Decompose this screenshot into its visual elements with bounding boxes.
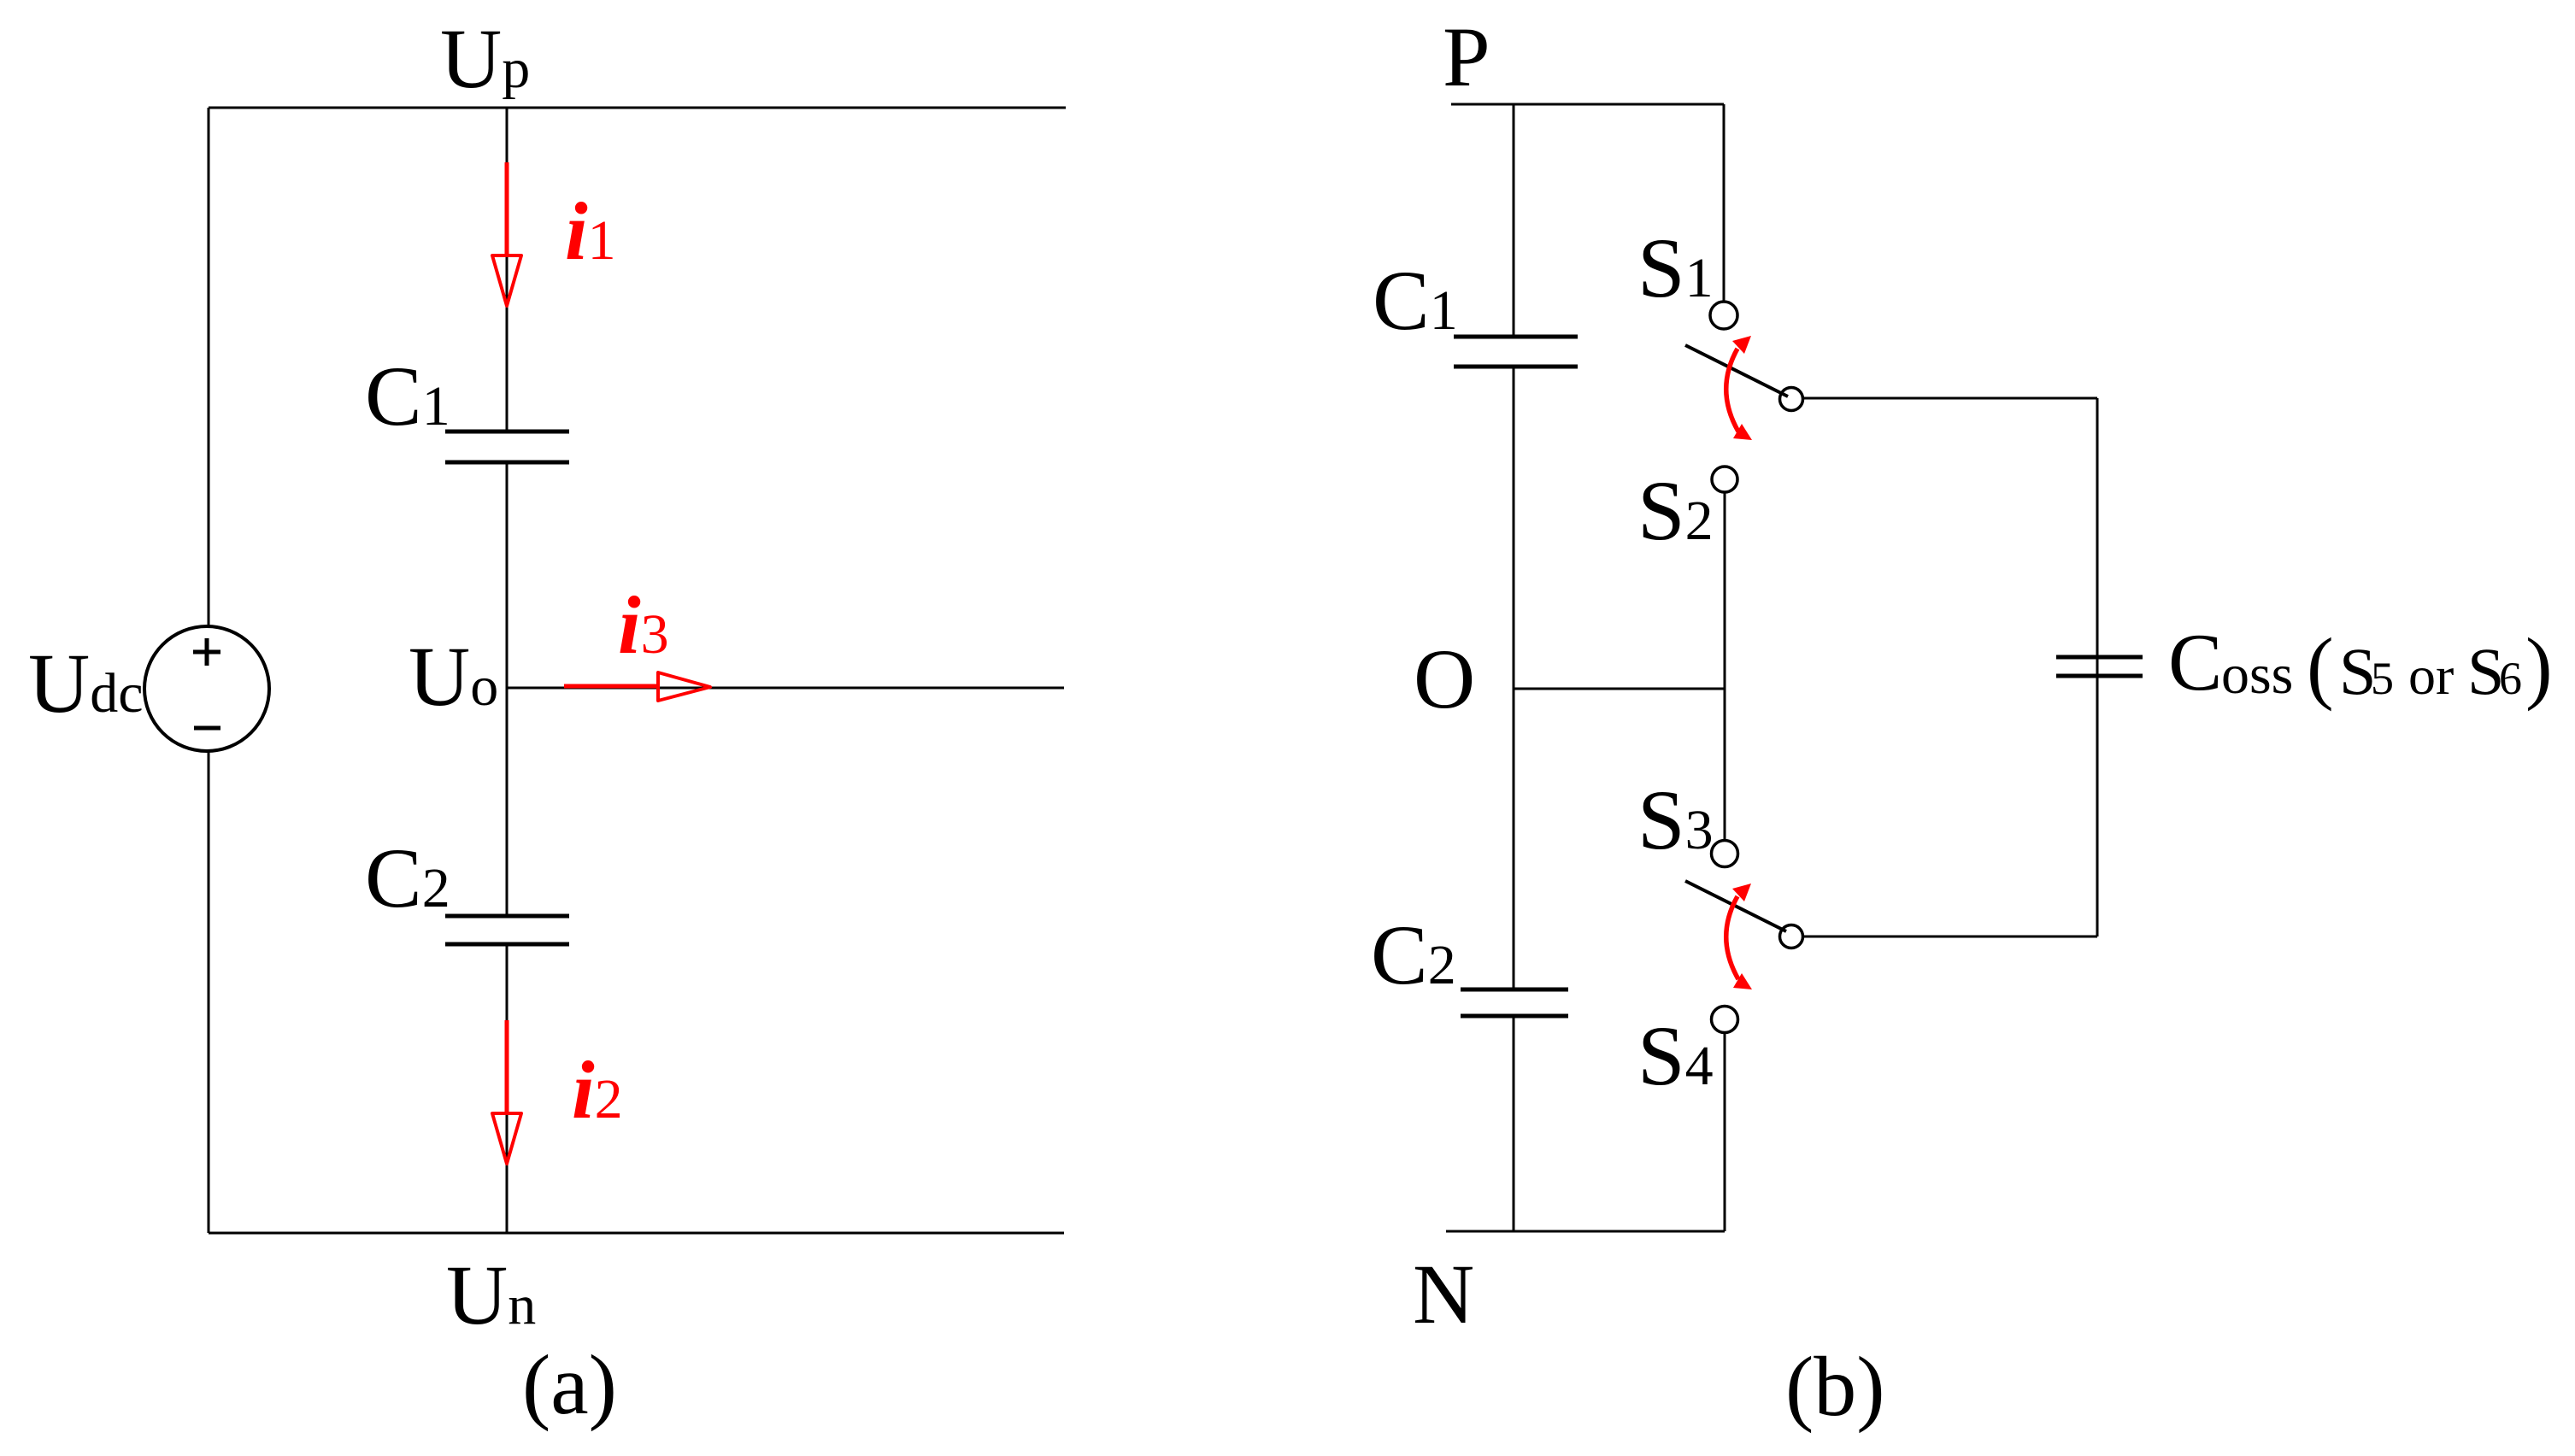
svg-text:6: 6 — [2499, 653, 2522, 704]
svg-text:5: 5 — [2371, 653, 2394, 704]
svg-text:oss: oss — [2221, 643, 2293, 706]
svg-text:O: O — [1414, 631, 1475, 726]
svg-text:(a): (a) — [522, 1337, 617, 1432]
svg-text:or: or — [2408, 645, 2454, 706]
svg-text:(: ( — [2307, 621, 2334, 712]
svg-text:): ) — [2525, 621, 2553, 712]
svg-text:N: N — [1413, 1247, 1474, 1342]
svg-text:(b): (b) — [1785, 1339, 1885, 1434]
svg-text:P: P — [1443, 9, 1490, 104]
svg-text:C: C — [2168, 617, 2222, 707]
